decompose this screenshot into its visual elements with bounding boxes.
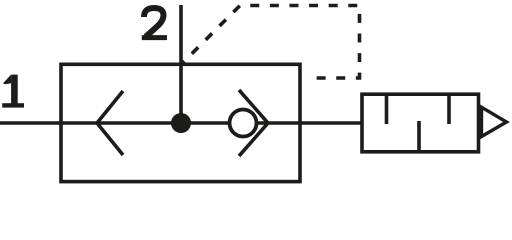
port label 2 [142,8,167,38]
check valve ball circle [230,110,257,137]
silencer baffle bottom [417,121,421,152]
valve body box [61,64,300,181]
exhaust triangle [482,107,507,136]
port label 1 [2,75,24,108]
node junction dot [171,113,191,133]
silencer baffle top-left [385,94,389,124]
wire main flow line port 1 to silencer [0,121,362,125]
silencer body rect [362,94,479,152]
check valve seat [239,90,268,156]
wire port 2 vertical line [179,5,183,123]
silencer baffle top-right [447,94,451,124]
flow arrow left (exhaust direction) [97,91,123,155]
pilot line dashed [182,6,360,79]
